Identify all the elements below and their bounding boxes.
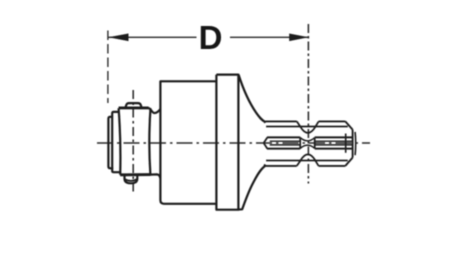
dimension line right segment <box>230 36 309 38</box>
bearing vertical centerline <box>132 90 134 194</box>
arrowhead right <box>289 34 308 42</box>
shaft end chamfers <box>345 121 352 129</box>
main cylinder body <box>160 81 216 204</box>
yoke bottom edge <box>151 174 161 178</box>
barrel bottom edge (thick) <box>120 173 151 176</box>
spline OD top line <box>264 121 297 122</box>
spline mid band lead-in <box>264 138 268 149</box>
shaft end face <box>352 130 354 158</box>
spline root top line <box>266 126 348 128</box>
cone bottom curve <box>239 166 266 210</box>
groove notch bottom <box>297 161 301 166</box>
spline mid band lines <box>267 136 300 138</box>
horizontal centerline (dash-dot) <box>97 142 370 144</box>
spline OD bottom line <box>264 165 297 166</box>
dimension line left segment <box>108 36 196 38</box>
spline root bottom line <box>266 160 348 162</box>
flange ring <box>216 75 238 210</box>
grease dome top <box>125 103 141 108</box>
dimension extension line left (dashed) <box>107 31 109 104</box>
bottom cup <box>125 175 138 184</box>
vertical centerline through groove (dash-dot, also dim extension) <box>307 24 309 184</box>
barrel left edge <box>119 108 121 175</box>
bearing cap ring <box>112 112 121 172</box>
chamfer base line <box>345 134 347 153</box>
groove mid verticals and arcs <box>299 137 301 148</box>
barrel top edge (thick) <box>119 106 149 109</box>
yoke top valley <box>149 108 161 113</box>
barrel right edge <box>149 108 150 174</box>
svg-text:D: D <box>199 19 223 56</box>
bottom cup inner arc <box>125 179 137 181</box>
arrowhead left <box>108 34 128 42</box>
cone top curve <box>239 75 265 122</box>
bearing cap outer face <box>108 117 113 169</box>
groove notch top <box>297 121 301 126</box>
